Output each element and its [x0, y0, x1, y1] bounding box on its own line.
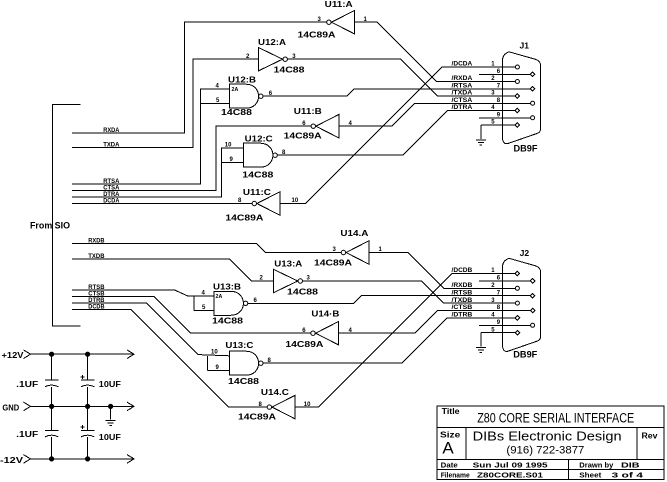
svg-text:RXDA: RXDA: [103, 128, 120, 134]
svg-text:RTSB: RTSB: [88, 285, 105, 291]
svg-text:U13:B: U13:B: [213, 283, 241, 292]
svg-text:14C89A: 14C89A: [314, 259, 352, 268]
svg-text:10: 10: [225, 143, 232, 149]
svg-text:2A: 2A: [232, 87, 239, 93]
svg-text:A: A: [442, 438, 454, 457]
svg-text:DB9F: DB9F: [514, 144, 538, 154]
svg-text:J1: J1: [520, 42, 530, 51]
svg-text:14C88: 14C88: [212, 317, 244, 326]
svg-text:Title: Title: [442, 407, 461, 416]
svg-text:3 of 4: 3 of 4: [612, 470, 645, 479]
svg-text:U11:A: U11:A: [325, 0, 353, 9]
svg-text:2A: 2A: [216, 294, 223, 300]
svg-text:14C89A: 14C89A: [238, 413, 276, 422]
svg-text:J2: J2: [520, 249, 530, 258]
svg-text:10: 10: [211, 349, 218, 355]
svg-text:DCDA: DCDA: [103, 198, 120, 204]
svg-text:14C89A: 14C89A: [298, 30, 336, 39]
svg-text:14C88: 14C88: [274, 66, 306, 75]
svg-text:Rev: Rev: [642, 431, 659, 440]
svg-text:U12:B: U12:B: [228, 76, 256, 85]
svg-text:.1UF: .1UF: [16, 430, 38, 439]
svg-text:GND: GND: [2, 404, 19, 413]
svg-text:TXDB: TXDB: [88, 254, 105, 260]
svg-text:CTSB: CTSB: [88, 291, 105, 297]
svg-text:.1UF: .1UF: [16, 380, 38, 389]
svg-text:U12:C: U12:C: [245, 135, 273, 144]
svg-text:DIBs Electronic Design: DIBs Electronic Design: [473, 429, 622, 444]
svg-text:(916) 722-3877: (916) 722-3877: [506, 444, 584, 456]
svg-text:U13:A: U13:A: [274, 260, 302, 269]
svg-text:U13:C: U13:C: [225, 341, 253, 350]
svg-text:U14·B: U14·B: [311, 310, 339, 319]
svg-text:Date: Date: [441, 461, 458, 470]
svg-text:RTSA: RTSA: [103, 179, 120, 185]
svg-text:Drawn by: Drawn by: [579, 461, 614, 470]
svg-text:From SIO: From SIO: [30, 221, 70, 231]
svg-text:U14.C: U14.C: [261, 388, 289, 397]
svg-text:14C88: 14C88: [287, 287, 319, 296]
svg-text:14C88: 14C88: [228, 377, 260, 386]
svg-text:14C89A: 14C89A: [225, 214, 263, 223]
svg-text:10UF: 10UF: [99, 380, 121, 389]
svg-text:Sheet: Sheet: [579, 470, 602, 479]
svg-text:10: 10: [292, 198, 299, 204]
svg-text:RXDB: RXDB: [88, 238, 105, 244]
svg-text:Filename: Filename: [441, 470, 470, 479]
svg-text:Sun Jul 09 1995: Sun Jul 09 1995: [473, 461, 548, 470]
svg-text:CTSA: CTSA: [103, 185, 120, 191]
svg-text:10UF: 10UF: [99, 433, 121, 442]
svg-text:-12V: -12V: [0, 456, 24, 465]
svg-text:DIB: DIB: [621, 461, 640, 470]
svg-text:U11:B: U11:B: [294, 107, 322, 116]
svg-text:DTRA: DTRA: [103, 192, 120, 198]
svg-text:10: 10: [304, 402, 311, 408]
svg-text:DB9F: DB9F: [513, 349, 537, 359]
svg-text:DTRB: DTRB: [88, 298, 105, 304]
svg-text:Z80CORE.S01: Z80CORE.S01: [477, 470, 543, 479]
svg-text:+12V: +12V: [2, 351, 25, 360]
svg-text:14C89A: 14C89A: [285, 340, 323, 349]
svg-text:U11:C: U11:C: [243, 188, 271, 197]
svg-text:U14.A: U14.A: [340, 229, 368, 238]
svg-text:14C89A: 14C89A: [284, 132, 322, 141]
svg-text:14C88: 14C88: [242, 171, 274, 180]
svg-text:U12:A: U12:A: [258, 38, 286, 47]
svg-text:TXDA: TXDA: [103, 142, 120, 148]
svg-text:DCDB: DCDB: [88, 304, 105, 310]
svg-text:Z80 CORE SERIAL INTERFACE: Z80 CORE SERIAL INTERFACE: [477, 411, 634, 427]
svg-text:14C88: 14C88: [221, 108, 253, 117]
